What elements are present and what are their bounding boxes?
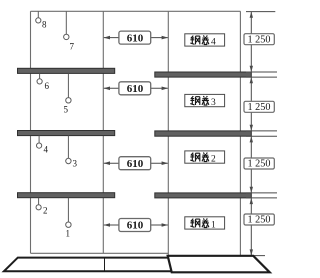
tick top — [246, 11, 275, 13]
svg-text:1: 1 — [211, 220, 216, 230]
ground slab left — [4, 258, 171, 272]
shelf bar B2 left — [18, 131, 115, 136]
tick bar1 bottom — [246, 76, 277, 78]
left rack frame — [31, 11, 104, 253]
wire left rack left edge — [30, 11, 32, 253]
wire rack bottom line — [31, 252, 169, 254]
dimension 1250 #1 — [244, 34, 274, 46]
dimension 610 #4 — [104, 219, 169, 232]
dimension 1250 #4 — [244, 214, 274, 226]
hanger 7 — [64, 11, 69, 39]
svg-text:1 250: 1 250 — [248, 102, 271, 113]
tick bottom — [247, 255, 266, 257]
shelf bar B3 right — [155, 193, 252, 198]
svg-text:610: 610 — [127, 83, 144, 95]
svg-text:2: 2 — [211, 154, 216, 164]
svg-text:3: 3 — [211, 98, 216, 108]
arrowheads on chain — [250, 12, 253, 256]
svg-text:5: 5 — [64, 105, 69, 115]
hanger 6 — [37, 73, 42, 84]
shelf bar B1 left — [18, 68, 115, 73]
coil box 4 — [185, 34, 225, 48]
svg-text:4: 4 — [44, 145, 49, 155]
wire right rack left edge — [167, 11, 169, 255]
right rack frame — [168, 11, 240, 255]
svg-text:1 250: 1 250 — [248, 159, 271, 170]
hanger 3 — [66, 136, 71, 164]
dimension chain vertical line — [250, 12, 252, 256]
hanger 8 — [36, 11, 41, 23]
svg-text:7: 7 — [70, 42, 75, 52]
svg-text:8: 8 — [42, 20, 47, 30]
wire right rack right edge — [239, 11, 241, 255]
dimension 1250 #2 — [244, 101, 274, 113]
svg-text:610: 610 — [127, 32, 144, 44]
svg-text:1 250: 1 250 — [248, 34, 271, 45]
dimension 610 #1 — [104, 31, 169, 44]
dimension 1250 #3 — [244, 158, 274, 170]
coil box 3 — [185, 94, 225, 108]
tick bar2 bottom — [246, 135, 277, 137]
tick bar2 top — [246, 130, 277, 132]
svg-text:610: 610 — [127, 220, 144, 232]
wire left rack right edge — [102, 11, 104, 253]
tick bar1 top — [246, 71, 277, 73]
shelf bar B1 right — [155, 72, 252, 77]
hanger 4 — [37, 136, 42, 149]
hanger 1 — [66, 198, 71, 228]
svg-text:2: 2 — [43, 206, 48, 216]
svg-text:1: 1 — [66, 229, 71, 239]
svg-text:4: 4 — [211, 37, 216, 47]
tick bar3 bottom — [246, 197, 277, 199]
svg-text:1 250: 1 250 — [248, 215, 271, 226]
svg-text:3: 3 — [73, 159, 78, 169]
svg-text:610: 610 — [127, 158, 144, 170]
hanger 2 — [36, 198, 41, 210]
dimension 610 #2 — [104, 82, 169, 95]
svg-text:6: 6 — [45, 81, 50, 91]
tick bar3 top — [246, 192, 277, 194]
wire top line — [31, 10, 241, 12]
coil box 2 — [185, 151, 225, 165]
ground slab divider — [104, 258, 106, 272]
shelf bar B2 right — [155, 131, 252, 136]
hanger 5 — [66, 73, 71, 103]
shelf bar B3 left — [18, 193, 115, 198]
coil box 1 — [185, 217, 225, 231]
ground slab right — [168, 256, 270, 272]
dimension 610 #3 — [104, 157, 169, 170]
